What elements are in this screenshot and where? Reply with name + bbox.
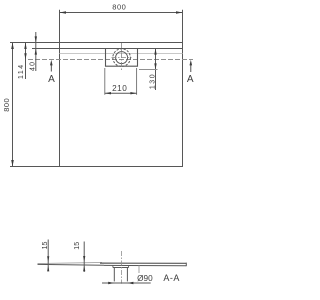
extension line top-left (y=42 to dim) (10, 42, 60, 44)
drain inner circle (116, 52, 128, 64)
dimension 130: lower arrow (points down) (154, 63, 156, 69)
svg-text:40: 40 (30, 61, 37, 71)
dimension 40: line (35, 32, 37, 71)
dimension 130: extension line (139, 69, 158, 71)
section marker A left: arrowhead (50, 60, 53, 66)
dimension 210: right arrow (130, 92, 136, 94)
section profile: recess edge tick (138, 266, 140, 274)
section profile: bottom shell line left (38, 263, 105, 266)
drain pipe left wall (113, 268, 115, 282)
dimension 800 top: line (60, 12, 183, 14)
section profile: drain step right wall (128, 266, 130, 268)
svg-text:Ø90: Ø90 (137, 274, 153, 283)
section profile: top line right (100, 262, 186, 264)
dimension 15 (second): upper arrow (points down) (83, 256, 85, 262)
dimension 130: line (155, 49, 157, 91)
svg-text:15: 15 (74, 242, 81, 250)
svg-text:210: 210 (112, 84, 127, 93)
drain horizontal centerline (112, 57, 132, 59)
svg-text:A: A (187, 74, 194, 85)
svg-text:15: 15 (42, 242, 49, 250)
section marker A left: arrow tail (50, 64, 52, 72)
dimension 114: up arrow (24, 43, 26, 50)
dimension 40: lower arrow (points up) (35, 49, 37, 55)
section profile: bottom line right / recess bottom (104, 264, 186, 266)
dimension 15 (first): line (47, 240, 49, 272)
dimension diameter 90: right arrow (points left) (127, 282, 133, 284)
extension line bottom-left (y=166) (10, 166, 60, 168)
plan view: tray outline square (60, 43, 183, 167)
svg-text:A: A (48, 74, 55, 85)
drain outer circle (dashed) (113, 49, 131, 67)
extension line up from top-left corner (59, 10, 61, 43)
plan view: slope contour light line (60, 53, 183, 55)
section profile: right end cap (185, 263, 187, 267)
dimension 15 (second): lower arrow (points up) (83, 265, 85, 271)
dimension 210: right extension line (136, 68, 138, 95)
drain pipe right wall (126, 268, 128, 282)
dimension 800 left: bottom arrow (11, 160, 14, 167)
section marker A right: arrow tail (190, 64, 192, 73)
svg-text:800: 800 (2, 98, 11, 112)
dimension 800 top: right arrow (176, 11, 183, 14)
section profile: sloped floor line (gray) (38, 262, 103, 263)
drain recess rectangle (106, 49, 138, 67)
section profile: drain step left wall (112, 266, 114, 268)
plan view: rim inner line (60, 48, 183, 50)
dimension diameter 90: line (102, 282, 151, 284)
dimension 15 (first): upper arrow (points down) (47, 256, 49, 262)
svg-text:130: 130 (149, 73, 156, 89)
dimension 114: line (25, 43, 27, 80)
dimension 114: down arrow (24, 53, 26, 59)
drain vertical centerline (121, 43, 123, 70)
svg-text:800: 800 (112, 3, 126, 12)
svg-text:A-A: A-A (163, 273, 180, 283)
dimension 15 (first): lower arrow (points up) (47, 266, 49, 272)
section cutting plane line A-A (dashed) (28, 59, 193, 61)
dimension 40: upper arrow (points down) (35, 36, 37, 42)
dimension diameter 90: left arrow (points right) (108, 282, 114, 284)
dimension 210: line (105, 92, 137, 94)
section marker A right: arrowhead (190, 60, 193, 66)
dimension 210: left extension line (104, 68, 106, 95)
dimension 800 left: line (12, 43, 14, 167)
dimension 210: left arrow (105, 92, 111, 94)
extension line rim (y=48) (32, 48, 60, 50)
section profile: drain step bottom (113, 267, 129, 269)
svg-text:114: 114 (18, 63, 25, 79)
drain centerline (section) (120, 251, 122, 284)
extension line up from top-right corner (182, 10, 184, 43)
dimension 800 left: top arrow (11, 43, 14, 50)
dimension 800 top: left arrow (60, 11, 67, 14)
dimension 130: upper arrow (points up) (154, 49, 156, 55)
dimension 15 (second): line (83, 242, 85, 273)
